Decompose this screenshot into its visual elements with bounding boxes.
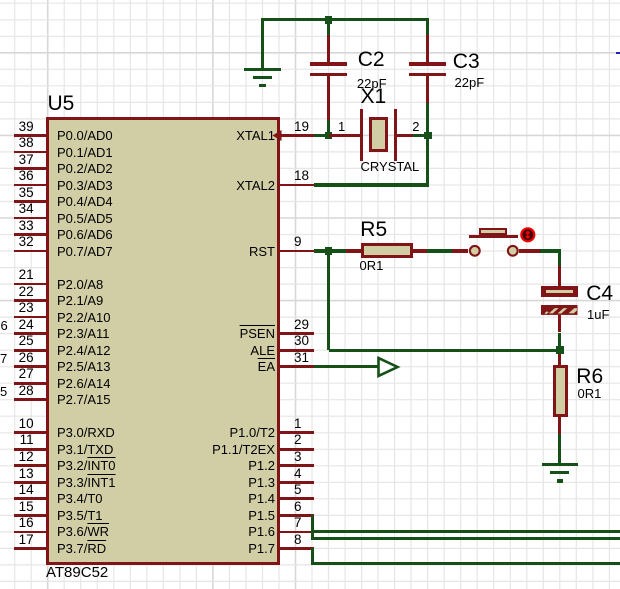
value C4 1uF xyxy=(587,308,609,321)
crystal X1 left plate xyxy=(360,109,364,161)
pin 12 P3.2/INT0 (left) xyxy=(14,464,47,467)
wire down to C4 xyxy=(558,251,561,266)
value R5 0R1 xyxy=(360,259,384,272)
value C3 22pF xyxy=(455,76,485,89)
ground GND top-left xyxy=(261,20,264,69)
wire P1.5 elbow down xyxy=(311,515,314,538)
capacitor C3 bottom wire xyxy=(426,103,429,135)
wire junction to crystal pin 1 xyxy=(329,134,362,137)
pin label 1 xyxy=(338,120,345,133)
button left pin xyxy=(452,249,468,252)
pin 2 P1.1/T2EX (right) xyxy=(280,448,314,451)
button right pin wire xyxy=(519,249,540,252)
push button plunger xyxy=(479,228,507,235)
node junction XTAL1/C2 xyxy=(325,132,333,140)
resistor R5 right pin xyxy=(413,249,427,252)
wire net P1.7 long line xyxy=(311,562,620,565)
capacitor C2 top pin xyxy=(327,35,330,62)
pin 15 P3.5/T1 (left) xyxy=(14,514,47,517)
push button interactive badge xyxy=(518,225,538,245)
ground GND bottom-right xyxy=(542,463,578,466)
pin 4 P1.3 (right) xyxy=(280,481,314,484)
node junction XTAL1-2/C3 xyxy=(424,132,432,140)
pin 1 P1.0/T2 (right) xyxy=(280,431,314,434)
node junction top (C2 tap) xyxy=(325,16,333,24)
capacitor C2 bottom pin xyxy=(327,76,330,120)
pin 32 P0.7/AD7 (left) xyxy=(14,250,47,253)
label U5 xyxy=(48,93,75,114)
resistor R6 top pin xyxy=(558,354,561,365)
label R6 xyxy=(576,366,603,387)
node junction RST xyxy=(325,247,333,255)
wire top horizontal VCC-less net xyxy=(261,18,429,21)
pin 26 P2.5/A13 (left) xyxy=(14,365,47,368)
pin 36 P0.3/AD3 (left) xyxy=(14,184,47,187)
pin 30 ALE (right) xyxy=(280,349,314,352)
pin 22 P2.1/A9 (left) xyxy=(14,299,47,302)
pin 9 RST (right) xyxy=(280,250,314,253)
pin 37 P0.2/AD2 (left) xyxy=(14,167,47,170)
wire net P1.6 long line xyxy=(314,530,620,533)
pin 10 P3.0/RXD (left) xyxy=(14,431,47,434)
pin 35 P0.4/AD4 (left) xyxy=(14,200,47,203)
pin 18 XTAL2 (right) xyxy=(280,184,314,187)
value AT89C52 xyxy=(46,565,108,580)
wire R6 to ground xyxy=(558,434,561,465)
pin 19 XTAL1 (right) xyxy=(280,134,314,137)
pin 33 P0.6/AD6 (left) xyxy=(14,233,47,236)
pin 13 P3.3/INT1 (left) xyxy=(14,481,47,484)
resistor R6 body xyxy=(553,365,568,417)
pin 28 P2.7/A15 (left) xyxy=(14,398,47,401)
capacitor C2 top pin wire xyxy=(327,20,330,35)
wire RST net horizontal xyxy=(329,349,560,352)
value C2 22pF xyxy=(357,77,387,90)
resistor R5 left pin xyxy=(346,249,361,252)
pin 14 P3.4/T0 (left) xyxy=(14,497,47,500)
crystal pin 2 wire red xyxy=(397,134,413,137)
label C4 xyxy=(586,283,613,304)
capacitor C3 bottom pin xyxy=(426,76,429,103)
capacitor C2 plates xyxy=(310,62,347,66)
push button left terminal xyxy=(466,242,484,260)
pin 8 P1.7 (right) xyxy=(280,547,314,550)
IC U5 AT89C52 body xyxy=(46,117,280,564)
pin 3 P1.2 (right) xyxy=(280,464,314,467)
node junction C4/R6 xyxy=(556,346,564,354)
pin 16 P3.6/WR (left) xyxy=(14,531,47,534)
clipped blue bus stub at right edge xyxy=(616,52,620,54)
capacitor C3 top pin xyxy=(426,35,429,62)
push button actuator bar xyxy=(469,235,518,238)
pin 11 P3.1/TXD (left) xyxy=(14,448,47,451)
pin 5 P1.4 (right) xyxy=(280,497,314,500)
wire RST to junction xyxy=(314,249,329,252)
resistor R5 body xyxy=(361,243,413,258)
pin 21 P2.0/A8 (left) xyxy=(14,283,47,286)
value R6 0R1 xyxy=(578,387,602,400)
pin 24 P2.3/A11 (left) xyxy=(14,332,47,335)
pin 27 P2.6/A14 (left) xyxy=(14,382,47,385)
wire button to C4 corner xyxy=(540,249,562,252)
clipped label fragment 7 xyxy=(0,352,7,365)
label R5 xyxy=(360,219,387,240)
label X1 xyxy=(361,86,387,107)
wire crystal pin2 to junction xyxy=(413,134,427,137)
clipped label fragment 5 xyxy=(0,385,7,398)
pin 7 P1.6 (right) xyxy=(280,531,314,534)
capacitor C2 bottom wire xyxy=(327,120,330,135)
capacitor C4 bottom plate (polarized hatch) xyxy=(541,305,579,316)
label C3 xyxy=(453,51,480,72)
clipped label fragment 6 xyxy=(1,319,8,332)
pin 6 P1.5 (right) xyxy=(280,514,314,517)
pin label 2 xyxy=(412,120,419,133)
capacitor C3 plates xyxy=(409,62,446,66)
wire EA pin xyxy=(314,365,378,368)
EA input terminal arrow xyxy=(377,356,401,380)
wire junction to R5 xyxy=(329,249,347,252)
wire C4 to junction xyxy=(558,333,561,351)
crystal X1 body xyxy=(369,117,388,152)
wire P1.7 elbow down xyxy=(311,548,314,564)
wire RST net vertical xyxy=(327,251,330,350)
capacitor C4 bottom pin xyxy=(558,315,561,333)
pin 34 P0.5/AD5 (left) xyxy=(14,217,47,220)
wire net P1.5 long line xyxy=(311,537,620,540)
crystal X1 right plate xyxy=(394,109,398,161)
push button right terminal xyxy=(504,242,522,260)
value CRYSTAL xyxy=(361,160,420,173)
pin 38 P0.1/AD1 (left) xyxy=(14,151,47,154)
pin 39 P0.0/AD0 (left) xyxy=(14,134,47,137)
wire C3 column down to XTAL2 row xyxy=(426,135,429,185)
capacitor C3 top pin wire xyxy=(426,20,429,35)
capacitor C4 top plate xyxy=(541,286,578,297)
pin 29 PSEN (right) xyxy=(280,332,314,335)
wire XTAL1 to junction xyxy=(314,134,329,137)
pin 17 P3.7/RD (left) xyxy=(14,547,47,550)
wire XTAL2 row xyxy=(314,183,430,186)
label C2 xyxy=(358,49,385,70)
resistor R6 bottom pin xyxy=(558,417,561,434)
pin 31 EA (right) xyxy=(280,365,314,368)
pin 25 P2.4/A12 (left) xyxy=(14,349,47,352)
capacitor C4 top pin xyxy=(558,266,561,286)
XTAL1 clock input arrow xyxy=(272,130,284,142)
wire R5 to button xyxy=(427,249,452,252)
pin 23 P2.2/A10 (left) xyxy=(14,316,47,319)
